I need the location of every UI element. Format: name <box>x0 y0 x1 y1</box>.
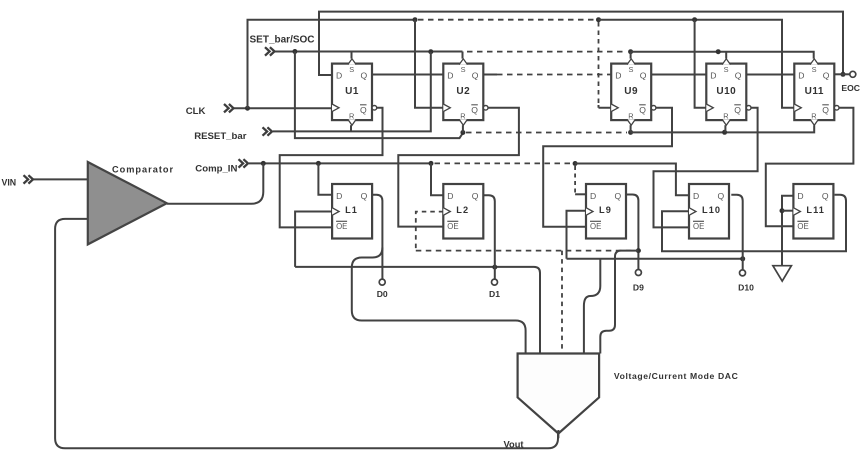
wire U9 R drop <box>630 125 632 132</box>
comparator U-comp <box>88 162 167 244</box>
junction Comp_IN at L9 <box>573 161 578 166</box>
junction SET bus at U9 <box>628 49 633 54</box>
svg-text:OE: OE <box>447 222 458 231</box>
wire DAC feedback to comparator and Vout line <box>55 219 558 448</box>
svg-text:EOC: EOC <box>841 83 860 93</box>
latch L10 <box>689 184 729 239</box>
wire SET bus right section <box>631 52 814 59</box>
svg-text:D1: D1 <box>489 289 500 299</box>
port CLK <box>186 104 234 117</box>
flip-flop U2 <box>443 59 488 125</box>
junction SET bus at runner <box>292 49 297 54</box>
wire SET bus dashed (omitted stages) <box>467 51 627 53</box>
svg-text:Comparator: Comparator <box>112 165 174 175</box>
wire U2 R drop <box>462 125 464 132</box>
wire runner SET to R bus <box>295 52 463 139</box>
svg-text:U2: U2 <box>456 86 470 97</box>
wire U1.Qbar to L1.OE <box>280 108 383 228</box>
svg-text:L2: L2 <box>456 205 469 215</box>
svg-text:Q: Q <box>823 71 830 81</box>
wire L9.Q to D9 terminal <box>627 195 639 270</box>
wire L2.Q to D1 terminal <box>483 195 495 279</box>
wire U2.Q stub <box>483 74 497 76</box>
terminal D10 <box>740 270 746 276</box>
label D0 <box>377 289 388 299</box>
wire L11 clock stub <box>782 210 793 212</box>
svg-text:L11: L11 <box>806 205 825 215</box>
wire U1.Q to U2.D <box>371 74 443 76</box>
wire L2 clock dashed feed <box>416 212 444 251</box>
junction U2 R on bus <box>460 130 465 135</box>
wire U9.Qbar to L9.OE <box>543 108 672 227</box>
svg-text:D: D <box>615 71 621 81</box>
wire U10.Q to U11.D <box>746 74 794 76</box>
wire dashed clock-feed line <box>416 250 635 252</box>
wire L9.D entry <box>575 193 586 195</box>
wire ground riser to L11.D <box>782 196 793 266</box>
wire R bus right section <box>631 125 815 132</box>
junction CLK bus at U10 drop <box>692 17 697 22</box>
junction ground riser at L11.clk <box>780 208 785 213</box>
wire CLK drop to U2 clock <box>415 20 443 108</box>
svg-text:D: D <box>336 71 342 81</box>
wire comparator output to Comp_IN node <box>167 163 263 203</box>
wire CLK bus right section <box>599 20 795 108</box>
wire L9 clock riser <box>567 211 587 259</box>
latch L9 <box>586 184 626 239</box>
svg-text:D: D <box>693 191 699 201</box>
wire U2.Qbar to L2.OE <box>398 108 519 227</box>
wire D10 net line <box>567 258 743 260</box>
wire D1 net line <box>295 267 540 354</box>
svg-text:D0: D0 <box>377 289 388 299</box>
wire Comp_IN right to L10.D <box>575 164 689 196</box>
wire DAC output tip <box>557 430 559 438</box>
wire CLK drop to U9 clock (dashed) <box>598 22 600 106</box>
svg-text:L10: L10 <box>702 205 721 215</box>
svg-text:S: S <box>629 65 634 74</box>
wire VIN to comparator <box>33 178 88 180</box>
wire Q chain dashed (U2.Q to U9.D) <box>497 74 611 76</box>
wire L10.Q to D10 terminal <box>731 195 742 270</box>
svg-text:R: R <box>811 112 816 121</box>
label Comparator <box>112 165 174 175</box>
wire U1 R drop <box>350 125 352 131</box>
svg-text:U11: U11 <box>805 86 824 97</box>
svg-text:S: S <box>724 65 729 74</box>
svg-text:S: S <box>461 65 466 74</box>
junction D9 net at dashed line <box>636 248 641 253</box>
wire CLK riser to top bus <box>248 20 416 109</box>
svg-text:D: D <box>590 191 596 201</box>
svg-text:Vout: Vout <box>504 440 524 450</box>
junction Comp_IN at comparator <box>261 161 266 166</box>
svg-text:Q: Q <box>360 105 367 115</box>
wire L1 clock riser <box>295 212 332 267</box>
port Comp_IN <box>195 159 248 174</box>
flip-flop U10 <box>706 59 751 125</box>
wire Comp_IN main <box>249 162 431 164</box>
wire L1.Q to D0 terminal <box>371 195 382 279</box>
svg-text:L9: L9 <box>599 205 612 215</box>
svg-text:S: S <box>812 65 817 74</box>
svg-text:Q: Q <box>472 191 479 201</box>
label D9 <box>633 283 644 293</box>
port SET_bar/SOC <box>250 35 315 56</box>
svg-text:CLK: CLK <box>186 106 206 117</box>
wire L2.D drop <box>431 163 443 195</box>
wire U10 R drop <box>724 125 726 132</box>
junction D10 net at drop <box>740 256 745 261</box>
svg-text:S: S <box>349 65 354 74</box>
label D1 <box>489 289 500 299</box>
svg-text:Q: Q <box>822 105 829 115</box>
junction SET bus at reset-join <box>428 49 433 54</box>
wire R bus dashed (omitted stages) <box>466 132 627 134</box>
junction Comp_IN at L2 <box>429 161 434 166</box>
svg-text:VIN: VIN <box>2 177 17 187</box>
junction CLK bus at U9 drop <box>596 17 601 22</box>
svg-text:Q: Q <box>472 71 479 81</box>
wire RESET_bar to join <box>273 52 431 131</box>
svg-text:D: D <box>447 71 453 81</box>
ground <box>773 266 792 281</box>
svg-text:D: D <box>336 191 342 201</box>
flip-flop U1 <box>332 59 377 125</box>
svg-text:Q: Q <box>361 71 368 81</box>
svg-text:R: R <box>460 112 465 121</box>
svg-text:Comp_IN: Comp_IN <box>195 164 237 175</box>
svg-text:D: D <box>798 71 804 81</box>
port VIN <box>2 175 34 187</box>
wire D0 net to DAC <box>352 248 526 354</box>
flip-flop U9 <box>611 59 656 125</box>
port RESET_bar <box>194 127 272 142</box>
latch L2 <box>443 184 483 239</box>
svg-text:Q: Q <box>639 105 646 115</box>
svg-text:D: D <box>447 191 453 201</box>
svg-text:R: R <box>723 112 728 121</box>
svg-text:Q: Q <box>471 105 478 115</box>
svg-text:Q: Q <box>361 191 368 201</box>
junction D1 net at drop <box>492 265 497 270</box>
wire SET_bar/SOC bus left <box>275 51 463 53</box>
svg-text:U10: U10 <box>716 86 736 97</box>
wire U10.Qbar to L10.OE <box>654 108 758 228</box>
flip-flop U11 <box>794 59 839 125</box>
junction CLK main <box>245 106 250 111</box>
svg-text:Q: Q <box>640 71 647 81</box>
junction ring feedback on Q/EOC wire <box>841 72 846 77</box>
svg-text:RESET_bar: RESET_bar <box>194 131 247 142</box>
terminal D9 <box>635 270 641 276</box>
svg-text:D9: D9 <box>633 283 644 293</box>
latch L11 <box>793 184 833 239</box>
svg-text:SET_bar/SOC: SET_bar/SOC <box>250 35 315 46</box>
wire SET drop to U1 S <box>351 52 353 59</box>
junction U9 R on bus <box>628 130 633 135</box>
wire U9.Q to U10.D <box>651 74 706 76</box>
wire SET drop to U10 S <box>725 52 727 59</box>
wire U11.Qbar to L11.OE <box>766 108 854 227</box>
svg-text:OE: OE <box>797 222 808 231</box>
svg-text:Q: Q <box>822 191 829 201</box>
terminal D1 <box>492 279 498 285</box>
wire SET drop to U9 S <box>630 52 632 59</box>
svg-text:L1: L1 <box>345 205 358 215</box>
wire L9.D drop (dashed) <box>574 166 576 194</box>
junction U10 R on bus <box>722 130 727 135</box>
svg-text:Q: Q <box>718 191 725 201</box>
label Vout <box>504 440 524 450</box>
wire ring feedback U11.Q to U1.D (top) <box>319 12 843 75</box>
wire D11 net L11.Q to L10.clk <box>662 195 846 251</box>
wire D9 net to DAC <box>600 251 638 354</box>
wire D10 net to DAC <box>584 259 600 354</box>
label Voltage/Current Mode DAC <box>614 371 739 381</box>
wire U11.Q to EOC <box>834 73 850 75</box>
svg-text:Voltage/Current Mode DAC: Voltage/Current Mode DAC <box>614 371 739 381</box>
svg-text:R: R <box>349 112 354 121</box>
wire CLK bus dashed (omitted stages) <box>418 19 596 21</box>
junction CLK bus at U2 drop <box>413 17 418 22</box>
svg-text:D10: D10 <box>738 283 754 293</box>
latch L1 <box>332 184 372 239</box>
svg-text:D: D <box>797 191 803 201</box>
svg-text:OE: OE <box>693 222 704 231</box>
svg-text:Q: Q <box>735 71 742 81</box>
svg-text:OE: OE <box>336 222 347 231</box>
terminal D0 <box>379 279 385 285</box>
wire CLK drop to U10 clock <box>695 20 707 108</box>
wire L1.D drop <box>318 163 332 194</box>
wire dashed DAC input (omitted bits) <box>561 251 563 354</box>
svg-text:U9: U9 <box>624 86 638 97</box>
wire CLK from port to U1 clock <box>234 107 333 109</box>
junction Comp_IN at L1 <box>316 161 321 166</box>
svg-text:D: D <box>710 71 716 81</box>
svg-text:Q: Q <box>734 105 741 115</box>
terminal EOC <box>841 71 860 93</box>
svg-text:Q: Q <box>615 191 622 201</box>
DAC voltage/current mode <box>518 354 600 434</box>
wire CLK into U9 clock <box>599 105 612 108</box>
svg-text:R: R <box>628 112 633 121</box>
label D10 <box>738 283 754 293</box>
svg-text:OE: OE <box>590 222 601 231</box>
junction SET bus at U10 <box>716 49 721 54</box>
wire SET drop to U2 S <box>462 52 464 59</box>
svg-text:U1: U1 <box>345 86 359 97</box>
wire Comp_IN dashed (omitted stages) <box>435 162 573 164</box>
